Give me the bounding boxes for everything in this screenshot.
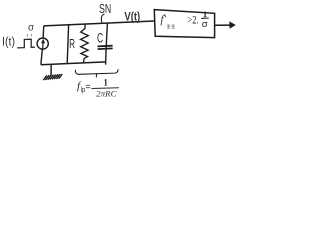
sampler label f' — [160, 14, 165, 26]
svg-text:I(t): I(t) — [2, 37, 15, 49]
wire source top lead — [42, 26, 45, 38]
pulse waveform — [17, 39, 35, 48]
svg-text:C: C — [97, 31, 103, 46]
resistor R — [81, 24, 89, 63]
current source arrow — [41, 39, 45, 49]
wire left shunt — [67, 25, 68, 64]
sampler block U1 — [154, 10, 214, 38]
svg-text:1: 1 — [103, 78, 108, 88]
SN leader arc — [101, 14, 104, 23]
svg-text:>2.: >2. — [187, 13, 198, 27]
output arrow — [215, 21, 236, 28]
svg-text:V(t): V(t) — [124, 12, 140, 24]
svg-text:R: R — [69, 36, 75, 51]
formula f_lp = 1/(2piRC) — [77, 78, 119, 99]
svg-text:σ: σ — [202, 19, 208, 30]
svg-text:1: 1 — [203, 9, 207, 19]
svg-text:SN: SN — [99, 2, 111, 16]
ground — [43, 64, 62, 80]
capacitor C — [98, 23, 113, 65]
wire source bottom lead — [41, 49, 42, 65]
svg-text:=: = — [86, 82, 91, 93]
current source I1 — [37, 38, 48, 49]
underbrace — [75, 69, 118, 77]
sampler subscript glyph blobs — [167, 24, 175, 29]
sigma width ticks — [27, 34, 31, 37]
sampler fraction 1/sigma — [201, 9, 209, 30]
wire top rail — [44, 21, 155, 26]
svg-text:2πRC: 2πRC — [96, 89, 117, 99]
wire bottom rail — [41, 62, 106, 65]
svg-text:σ: σ — [28, 23, 35, 34]
